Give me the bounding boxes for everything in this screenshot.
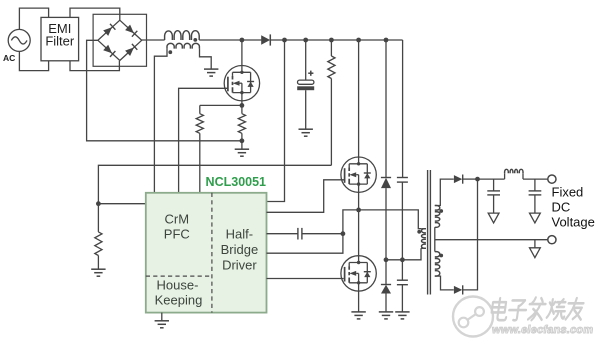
node bus drain xyxy=(240,38,245,43)
wire upper FET source to mid node xyxy=(358,192,360,210)
phasing dot secondary upper xyxy=(439,209,443,213)
svg-text:Voltage: Voltage xyxy=(552,214,595,229)
wire bridge positive to boost inductor xyxy=(142,39,165,41)
wire aux winding to ground xyxy=(200,49,212,70)
boost diode D5 xyxy=(261,34,270,45)
wire bus to clamp diode D6 xyxy=(385,40,387,177)
capacitor C6 output xyxy=(529,179,542,217)
wire HB pin to boot node xyxy=(267,234,343,254)
ground FB divider xyxy=(91,269,105,276)
wire NCL30051 ground xyxy=(161,313,163,321)
diode D6 upper clamp xyxy=(381,178,391,189)
capacitor C3 upper divider xyxy=(397,40,408,182)
wire PFC source node xyxy=(241,101,243,106)
wire center tap xyxy=(434,227,436,251)
ground PFC source xyxy=(235,149,249,156)
wire lower gate drive xyxy=(267,278,344,280)
resistor R4 (FB lower divider) xyxy=(95,204,102,269)
node bus upper FET xyxy=(356,38,361,43)
capacitor C1 bulk electrolytic xyxy=(297,40,314,129)
resistor R3 (feedback from bus) xyxy=(328,40,335,165)
diode D8 output rectifier top xyxy=(454,175,463,184)
inductor L1 main winding xyxy=(165,31,200,40)
svg-text:DC: DC xyxy=(552,200,571,215)
transformer T1 secondary lower xyxy=(435,252,440,276)
capacitor C5 output xyxy=(487,179,500,217)
wire AC bottom to EMI filter xyxy=(19,51,48,70)
EMI filter block xyxy=(41,17,79,60)
wire L1 to boost diode and bus xyxy=(199,39,261,41)
wire L2 to output terminal xyxy=(523,178,548,180)
transformer T1 secondary upper xyxy=(435,206,440,228)
MOSFET Q2 (half-bridge high side) xyxy=(341,157,376,192)
svg-text:Keeping: Keeping xyxy=(155,292,203,307)
wire aux winding to NCL30051 ZCD xyxy=(154,49,167,193)
wire C2 to mid node xyxy=(302,233,343,235)
transformer T1 core xyxy=(428,170,431,295)
node R2 bottom xyxy=(240,138,245,143)
inductor L1 aux winding (ZCD) xyxy=(167,43,199,48)
wire FB node to NCL30051 xyxy=(98,203,145,205)
transformer T1 primary xyxy=(421,229,426,249)
node half-bridge mid xyxy=(356,208,361,213)
MOSFET Q3 (half-bridge low side) xyxy=(341,256,376,291)
ground arrow return xyxy=(530,248,541,258)
node PFC source xyxy=(240,103,245,108)
inductor L2 output filter xyxy=(505,169,523,179)
wire upper FET drain xyxy=(358,40,360,157)
ground divider caps xyxy=(395,312,409,319)
wire HV bus xyxy=(270,39,402,41)
node divider right xyxy=(400,257,405,262)
wire EMI to bridge top (AC line) xyxy=(70,8,120,20)
svg-text:House-: House- xyxy=(157,278,199,293)
wire D7 to ground xyxy=(385,294,387,312)
watermark text dianzifashaoyou xyxy=(491,298,585,321)
wire rectifier bottom up to output node xyxy=(463,179,478,290)
wire secondary bottom to rectifier xyxy=(435,276,454,290)
ground NCL30051 xyxy=(155,321,169,328)
wire C4 to ground xyxy=(401,285,403,312)
ground clamp diodes xyxy=(379,312,393,319)
wire bridge negative rail xyxy=(87,40,242,141)
svg-text:Filter: Filter xyxy=(45,34,75,49)
wire bootstrap VB xyxy=(267,233,298,235)
ground bulk cap xyxy=(299,129,313,136)
svg-text:AC: AC xyxy=(3,53,15,63)
bridge rectifier BR1 xyxy=(93,14,146,66)
divider dashed vertical xyxy=(211,193,213,313)
wire divider node to primary xyxy=(386,248,421,259)
svg-text:PFC: PFC xyxy=(164,226,190,241)
node FB divider xyxy=(96,201,101,206)
watermark url text xyxy=(491,324,600,336)
phasing dot aux xyxy=(168,50,172,54)
terminal output positive xyxy=(548,175,556,183)
ground arrow C5 xyxy=(488,213,499,223)
wire PFC gate to NCL30051 xyxy=(179,88,228,193)
node bus Vcc tap xyxy=(282,38,287,43)
node bus clamp xyxy=(384,38,389,43)
svg-text:CrM: CrM xyxy=(165,211,190,226)
MOSFET Q1 (PFC switch) xyxy=(224,66,259,101)
diode D9 output rectifier bottom xyxy=(454,285,463,294)
wire upper gate drive xyxy=(267,180,345,213)
resistor R1 (to CS pin) xyxy=(196,105,203,192)
svg-text:Driver: Driver xyxy=(222,258,257,273)
IC U1 NCL30051 block xyxy=(146,193,267,313)
wire return ground stub xyxy=(534,240,536,252)
wire feedback line xyxy=(98,165,331,203)
ground arrow C6 xyxy=(530,213,541,223)
wire D6 to divider node xyxy=(385,188,387,260)
node bus bulk cap xyxy=(303,38,308,43)
wire secondary top to rectifier xyxy=(435,179,454,205)
phasing dot primary xyxy=(417,230,421,234)
svg-text:Half-: Half- xyxy=(226,226,253,241)
wire lower FET source xyxy=(358,291,360,312)
wire R2 to ground xyxy=(241,141,243,149)
wire EMI to bridge bottom (AC neutral) xyxy=(70,61,119,71)
node bus feedback resistor xyxy=(329,38,334,43)
divider dashed horizontal xyxy=(146,275,212,277)
wire PFC drain xyxy=(241,40,243,66)
svg-text:Fixed: Fixed xyxy=(552,185,584,200)
wire AC top to EMI filter xyxy=(19,8,48,30)
resistor R2 (shunt) xyxy=(238,105,245,140)
wire bus to NCL30051 Vcc xyxy=(267,40,285,202)
svg-text:Bridge: Bridge xyxy=(221,242,259,257)
terminal output negative xyxy=(548,236,556,244)
AC source V1 xyxy=(8,29,30,51)
wire boot node up to mid rail xyxy=(343,210,359,234)
diode D7 lower clamp xyxy=(381,260,391,294)
node bootstrap xyxy=(341,231,346,236)
capacitor C4 lower divider xyxy=(397,260,408,285)
wire output node to filter xyxy=(478,178,505,180)
wire lower FET drain xyxy=(358,210,360,256)
wire C3 to divider node xyxy=(401,182,403,259)
wire mid rail to transformer xyxy=(359,210,422,229)
watermark logo xyxy=(453,297,493,337)
ground aux winding xyxy=(204,69,218,76)
svg-text:NCL30051: NCL30051 xyxy=(206,175,266,189)
wire source to R1 xyxy=(200,104,242,106)
wire rectifier top to output node xyxy=(463,178,478,180)
phasing dot secondary lower xyxy=(439,254,443,258)
node output rectifier xyxy=(475,177,480,182)
ground lower FET xyxy=(351,312,365,319)
phasing dot L1 xyxy=(193,38,197,42)
node divider left xyxy=(384,257,389,262)
wire center tap to output return xyxy=(435,239,548,241)
capacitor C2 bootstrap xyxy=(298,228,302,240)
